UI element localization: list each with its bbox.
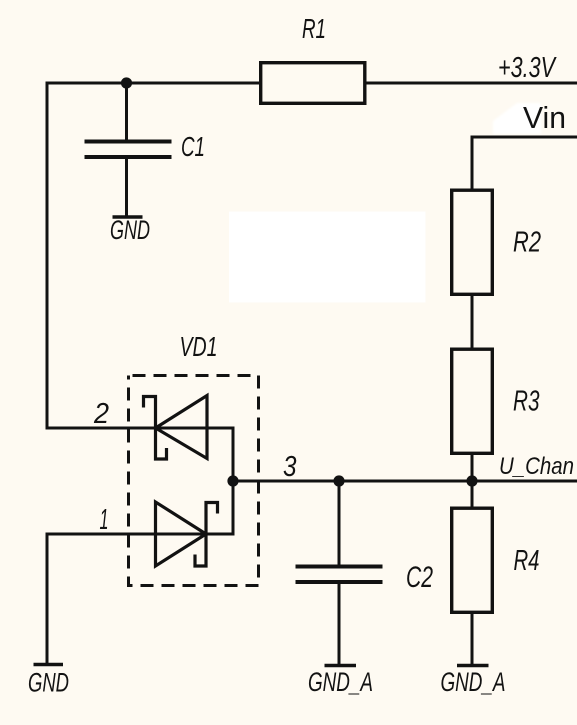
wire pin 1 xyxy=(47,533,235,536)
svg-text:GND_A: GND_A xyxy=(441,667,506,697)
white patch behind Vin xyxy=(493,103,541,134)
ground bar under C2 xyxy=(325,664,357,668)
wire node to R4 xyxy=(471,481,474,508)
wire C2 top xyxy=(338,481,341,565)
wire +3.3V rail top xyxy=(46,82,577,85)
resistor R2 xyxy=(452,190,493,294)
label R3 xyxy=(513,386,540,418)
svg-text:GND: GND xyxy=(110,215,150,245)
capacitor C2 xyxy=(296,567,383,583)
diode VD1 upper (zener, cathode left) xyxy=(144,396,208,460)
diode VD1 lower (zener, cathode right) xyxy=(156,502,218,566)
wire R3 to node xyxy=(471,454,474,481)
ground bar under C1 xyxy=(113,215,143,219)
net label Vin xyxy=(523,100,566,135)
svg-text:3: 3 xyxy=(283,451,297,483)
pin label 2 xyxy=(93,398,109,430)
ground bar under R4 xyxy=(457,664,489,668)
node junction at R4 / U_Chan xyxy=(466,475,477,486)
wire diode VD1 lower anode up xyxy=(232,481,235,536)
label VD1 xyxy=(180,331,218,362)
ground label GND under C1 xyxy=(110,215,150,245)
svg-text:2: 2 xyxy=(93,398,109,430)
wire left bus vertical xyxy=(46,82,49,430)
wire C1 bottom xyxy=(125,157,128,216)
ground label GND_A under C2 xyxy=(308,667,373,697)
wire pin 3 horizontal xyxy=(233,480,577,483)
label R2 xyxy=(513,227,541,259)
net label +3.3V xyxy=(498,52,557,84)
ground bar bottom left xyxy=(34,663,64,667)
label C1 xyxy=(181,131,205,162)
svg-text:C2: C2 xyxy=(406,561,433,594)
svg-text:VD1: VD1 xyxy=(180,331,218,362)
ground label GND bottom left xyxy=(28,668,69,698)
svg-text:C1: C1 xyxy=(181,131,205,162)
wire R4 bottom xyxy=(471,612,474,664)
dashed box VD1 xyxy=(129,376,259,586)
svg-text:GND_A: GND_A xyxy=(308,667,373,697)
wire Vin to R2 xyxy=(471,136,474,191)
resistor R4 xyxy=(452,508,493,612)
wire pin 2 xyxy=(47,427,235,430)
label C2 xyxy=(406,561,433,594)
net label U_Chan xyxy=(499,453,574,480)
capacitor C1 xyxy=(85,142,172,158)
svg-text:R1: R1 xyxy=(302,13,326,44)
resistor R1 xyxy=(261,63,365,104)
wire diode VD1 upper anode down xyxy=(232,427,235,482)
svg-text:R4: R4 xyxy=(514,545,540,577)
wire C2 bottom xyxy=(338,582,341,664)
svg-text:U_Chan: U_Chan xyxy=(499,453,574,480)
pin label 3 xyxy=(283,451,297,483)
svg-text:R2: R2 xyxy=(513,227,541,259)
pin label 1 xyxy=(100,504,109,536)
wire R2 to R3 xyxy=(471,295,474,348)
wire Vin horizontal xyxy=(471,136,577,139)
svg-text:R3: R3 xyxy=(513,386,540,418)
white redaction rectangle center xyxy=(229,212,426,303)
ground label GND_A under R4 xyxy=(441,667,506,697)
node junction at C2 xyxy=(333,475,344,486)
node junction pin 3 xyxy=(227,475,238,486)
resistor R3 xyxy=(452,349,493,453)
svg-text:GND: GND xyxy=(28,668,69,698)
label R1 xyxy=(302,13,326,44)
svg-text:+3.3V: +3.3V xyxy=(498,52,557,84)
svg-text:Vin: Vin xyxy=(523,100,566,135)
wire C1 top xyxy=(125,83,128,141)
wire pin1 stub down to GND xyxy=(46,533,49,664)
label R4 xyxy=(514,545,540,577)
node junction at C1 top xyxy=(121,77,132,88)
svg-text:1: 1 xyxy=(100,504,109,536)
